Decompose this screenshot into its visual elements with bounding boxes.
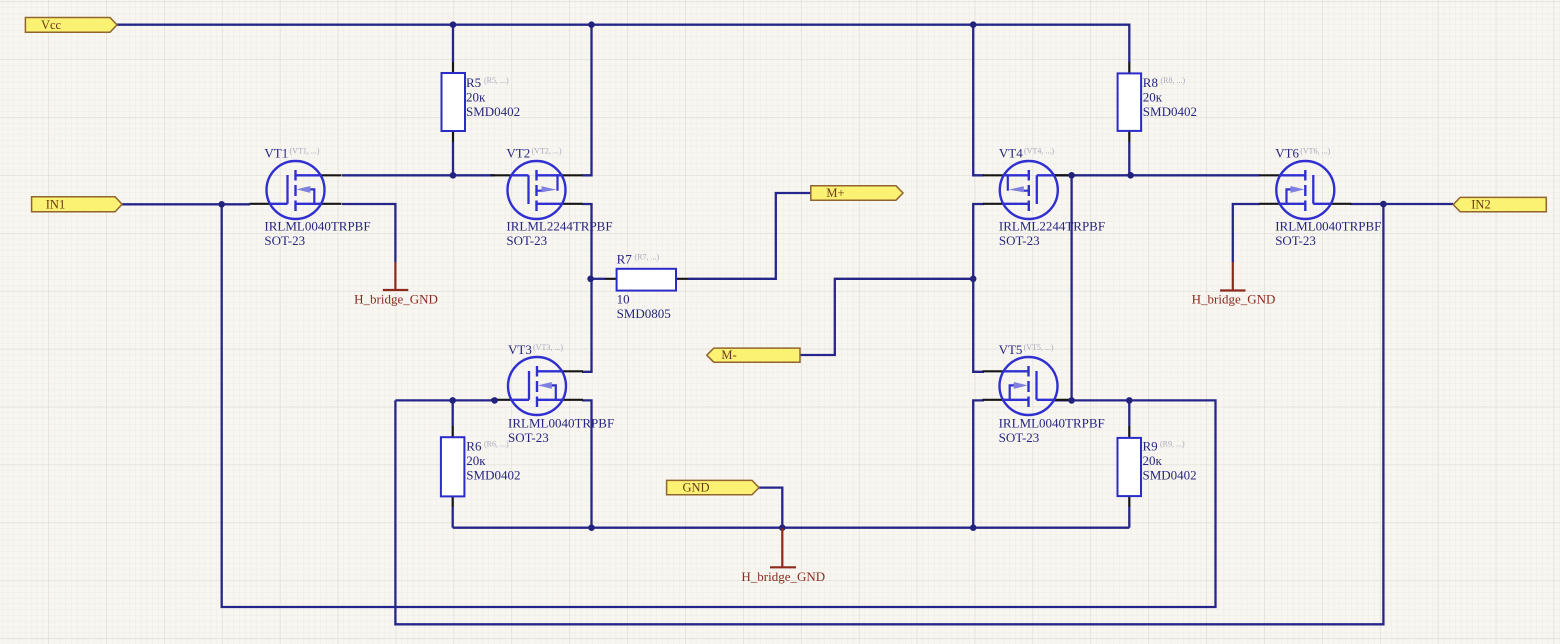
port IN1 <box>32 197 123 212</box>
wire A: IN1 down, bottom run, up to VT5 gate line <box>222 204 1216 607</box>
svg-text:R7: R7 <box>617 251 633 266</box>
power port H_bridge_GND (right) <box>1192 262 1276 307</box>
transistor VT6 (mirrored) <box>1259 161 1351 219</box>
junction IN1 node <box>218 201 225 208</box>
svg-text:(R9, ...): (R9, ...) <box>1160 440 1185 449</box>
svg-text:(R5, ...): (R5, ...) <box>484 76 509 85</box>
VT2 labels <box>506 146 612 249</box>
wire net VT1 drain / R5 / VT2 gate <box>342 174 495 176</box>
resistor R5 <box>442 62 466 142</box>
svg-text:SMD0402: SMD0402 <box>466 468 520 483</box>
junction R6 top <box>449 397 456 404</box>
wire GND port to rail <box>759 488 782 528</box>
svg-text:SOT-23: SOT-23 <box>508 430 549 445</box>
wire R6 top pin <box>452 400 454 426</box>
svg-text:H_bridge_GND: H_bridge_GND <box>741 569 825 584</box>
wire R7 left pin to node <box>591 278 605 280</box>
VT4 labels <box>999 146 1105 249</box>
VT1 labels <box>264 146 370 249</box>
svg-text:20к: 20к <box>1143 90 1163 105</box>
junction R9 top <box>1126 397 1133 404</box>
svg-text:IRLML2244TRPBF: IRLML2244TRPBF <box>999 219 1105 234</box>
transistor VT3 <box>491 357 583 415</box>
svg-text:Vcc: Vcc <box>41 18 62 32</box>
svg-text:VT2: VT2 <box>506 146 530 161</box>
resistor R9 <box>1118 426 1142 507</box>
svg-text:R9: R9 <box>1143 439 1158 454</box>
transistor VT2 <box>491 161 583 219</box>
svg-text:VT6: VT6 <box>1275 146 1299 161</box>
VT3 labels <box>508 342 614 445</box>
svg-text:H_bridge_GND: H_bridge_GND <box>1192 292 1276 307</box>
wire R5 bottom to gate net <box>452 142 454 175</box>
wire B: IN2 down, bottom run, up to VT3 gate line <box>395 204 1383 624</box>
svg-text:IN2: IN2 <box>1471 198 1490 212</box>
transistor VT5 (mirrored) <box>983 357 1075 415</box>
wire VT4 drain down to VT5 drain <box>973 204 984 372</box>
port M+ <box>811 186 903 200</box>
resistor R7 <box>605 269 688 291</box>
svg-text:SMD0402: SMD0402 <box>1143 468 1197 483</box>
wire VT2 source up to Vcc <box>582 25 592 176</box>
resistor R6 <box>441 426 465 507</box>
svg-text:VT3: VT3 <box>508 342 532 357</box>
wire Vcc down to VT4 source <box>973 25 984 176</box>
VT5 labels <box>999 342 1105 445</box>
svg-text:(VT3, ...): (VT3, ...) <box>533 343 563 352</box>
wire Vcc rail <box>117 25 1130 62</box>
wire IN1 to VT1 gate <box>122 203 250 205</box>
svg-text:R5: R5 <box>466 75 481 90</box>
svg-text:M+: M+ <box>826 186 844 200</box>
svg-text:SMD0402: SMD0402 <box>1143 104 1197 119</box>
svg-text:SOT-23: SOT-23 <box>264 233 305 248</box>
R5 labels <box>466 75 520 119</box>
junction Vcc/R5 <box>450 21 457 28</box>
svg-text:10: 10 <box>617 292 630 307</box>
junction VT4 gate node <box>1068 172 1075 179</box>
svg-text:VT4: VT4 <box>999 146 1023 161</box>
svg-text:SMD0805: SMD0805 <box>617 306 671 321</box>
svg-text:20к: 20к <box>1143 453 1163 468</box>
wire VT6 gate to IN2 <box>1350 203 1453 205</box>
svg-text:(R6, ...): (R6, ...) <box>484 440 509 449</box>
svg-text:(VT4, ...): (VT4, ...) <box>1024 147 1054 156</box>
wire VT2 drain down to VT3 drain <box>582 204 592 372</box>
wire VT4 gate / R8 / VT6 drain net <box>1053 174 1260 176</box>
wire R5 top drop <box>452 25 454 62</box>
junction Vcc/VT4 <box>970 21 977 28</box>
transistor VT1 <box>250 161 342 219</box>
wire VT6 source to H_bridge_GND <box>1233 204 1260 262</box>
junction IN2 node <box>1380 201 1387 208</box>
svg-text:IRLML2244TRPBF: IRLML2244TRPBF <box>506 219 612 234</box>
svg-text:VT5: VT5 <box>999 342 1023 357</box>
resistor R8 <box>1118 62 1142 142</box>
svg-text:(R7, ...): (R7, ...) <box>635 253 660 262</box>
junction R5 bottom / VT1 drain <box>450 172 457 179</box>
R6 labels <box>466 439 520 483</box>
junction M- node <box>970 276 977 283</box>
svg-text:20к: 20к <box>466 453 486 468</box>
wire M- to right bridge node <box>800 279 973 355</box>
wire GND rail <box>453 527 1130 529</box>
wire R9 top pin <box>1128 400 1130 426</box>
svg-text:H_bridge_GND: H_bridge_GND <box>354 292 438 307</box>
svg-text:SOT-23: SOT-23 <box>999 233 1040 248</box>
wire VT3 source down to GND rail <box>582 400 592 527</box>
svg-text:M-: M- <box>721 348 736 362</box>
R8 labels <box>1143 75 1197 119</box>
wire R6 bottom to GND rail <box>452 507 454 528</box>
svg-text:20к: 20к <box>466 90 486 105</box>
svg-text:IRLML0040TRPBF: IRLML0040TRPBF <box>508 416 614 431</box>
junction VT3 gate pin <box>491 397 498 404</box>
R7 labels <box>617 251 671 321</box>
wire R9 bottom to GND rail <box>1128 507 1130 528</box>
junction GND rail / GND port <box>779 524 786 531</box>
port IN2 <box>1453 197 1546 211</box>
svg-text:IRLML0040TRPBF: IRLML0040TRPBF <box>1275 219 1381 234</box>
wire VT1 source to H_bridge_GND <box>342 204 395 262</box>
junction R7 left node <box>587 276 594 283</box>
svg-text:(VT6, ...): (VT6, ...) <box>1300 147 1330 156</box>
svg-text:(VT1, ...): (VT1, ...) <box>290 147 320 156</box>
port M- <box>707 348 800 362</box>
power port H_bridge_GND (center) <box>741 528 825 585</box>
wire vertical VT4 gate to VT5 gate <box>1070 175 1072 400</box>
R9 labels <box>1143 439 1197 483</box>
svg-text:R8: R8 <box>1143 75 1158 90</box>
svg-text:VT1: VT1 <box>264 146 288 161</box>
wire R7 right to M+ <box>688 193 811 279</box>
port GND <box>667 480 759 494</box>
wire R8 bottom pin <box>1128 142 1130 175</box>
svg-text:SOT-23: SOT-23 <box>1275 233 1316 248</box>
svg-text:R6: R6 <box>466 439 482 454</box>
svg-text:IRLML0040TRPBF: IRLML0040TRPBF <box>264 219 370 234</box>
wire VT5 source down to GND rail <box>973 400 984 527</box>
svg-text:(VT2, ...): (VT2, ...) <box>532 147 562 156</box>
svg-text:SOT-23: SOT-23 <box>506 233 547 248</box>
svg-text:(R8, ...): (R8, ...) <box>1161 76 1186 85</box>
svg-text:IRLML0040TRPBF: IRLML0040TRPBF <box>999 416 1105 431</box>
power port H_bridge_GND (left) <box>354 262 438 307</box>
junction Vcc/VT2 <box>588 21 595 28</box>
svg-text:SMD0402: SMD0402 <box>466 104 520 119</box>
svg-text:(VT5, ...): (VT5, ...) <box>1024 343 1054 352</box>
svg-text:SOT-23: SOT-23 <box>999 430 1040 445</box>
junction VT5 gate node <box>1068 397 1075 404</box>
junction R8 bottom <box>1127 172 1134 179</box>
VT6 labels <box>1275 146 1381 249</box>
port Vcc <box>25 18 117 33</box>
wire VT3 gate line from wire B <box>395 399 494 401</box>
transistor VT4 (mirrored) <box>983 161 1075 219</box>
svg-text:GND: GND <box>682 481 709 495</box>
junction GND rail / VT3 source <box>588 524 595 531</box>
junction GND rail / VT5 source <box>970 524 977 531</box>
svg-text:IN1: IN1 <box>46 198 65 212</box>
